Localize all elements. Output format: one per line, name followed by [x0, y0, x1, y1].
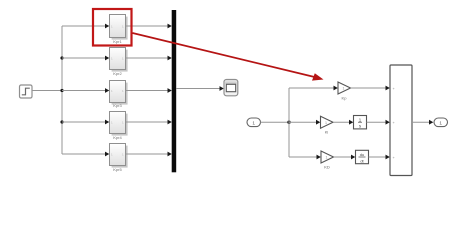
- svg-text:1: 1: [325, 121, 327, 125]
- subsystem block Kpr5: [110, 144, 128, 173]
- subsystem block Kpr3: [110, 81, 128, 109]
- derivative du/dt: [356, 150, 369, 163]
- svg-text:1: 1: [326, 156, 328, 160]
- step source block: [20, 85, 33, 98]
- wire KD to derivative: [334, 155, 356, 160]
- gain Kp: [338, 82, 351, 101]
- wire to block 2: [62, 56, 109, 61]
- outport 1: [434, 118, 448, 127]
- wire derivative to sum: [369, 155, 390, 160]
- gain Ki: [321, 116, 334, 134]
- wire to gain KD: [289, 155, 321, 160]
- wire Ki to integrator: [333, 120, 353, 125]
- wire block3 to mux: [126, 88, 172, 93]
- wire to block 3: [62, 88, 109, 93]
- wire step to branch node: [32, 90, 62, 92]
- svg-text:Ki: Ki: [325, 130, 329, 135]
- junction node pid: [287, 121, 290, 124]
- red annotation arrow: [133, 33, 324, 81]
- svg-text:1: 1: [439, 121, 442, 127]
- wire to gain Kp: [289, 86, 338, 91]
- wire inport to branch: [261, 121, 290, 123]
- integrator 1/s: [354, 116, 367, 129]
- junction node row3: [60, 89, 63, 92]
- wire block1 to mux: [126, 24, 172, 29]
- svg-text:du: du: [360, 152, 364, 157]
- wire block2 to mux: [126, 56, 172, 61]
- gain KD: [321, 151, 334, 170]
- svg-text:Kpr1: Kpr1: [113, 39, 122, 44]
- svg-text:Kpr4: Kpr4: [113, 135, 122, 140]
- subsystem block Kpr2: [110, 48, 128, 77]
- wire mux to scope: [176, 86, 224, 91]
- svg-text:Kpr5: Kpr5: [113, 167, 122, 172]
- vertical branch wire pid: [288, 88, 290, 157]
- red highlight box: [93, 9, 132, 46]
- svg-text:1: 1: [343, 87, 345, 91]
- wire block4 to mux: [126, 120, 172, 125]
- wire sum to outport: [412, 120, 433, 125]
- wire to block 4: [62, 120, 109, 125]
- vertical branch wire: [61, 26, 63, 154]
- junction node row2: [60, 56, 63, 59]
- subsystem block Kpr1: [110, 15, 128, 45]
- mux bar: [172, 10, 177, 172]
- junction node row4: [60, 120, 63, 123]
- inport 1: [247, 118, 261, 127]
- svg-text:KD: KD: [324, 165, 330, 170]
- sum block: [390, 65, 412, 176]
- svg-text:Kpr2: Kpr2: [113, 71, 122, 76]
- svg-text:Kp: Kp: [342, 96, 348, 101]
- wire Kp to sum: [351, 86, 390, 91]
- wire to gain Ki: [289, 120, 320, 125]
- svg-text:1: 1: [252, 121, 255, 127]
- svg-text:Kpr3: Kpr3: [113, 103, 122, 108]
- subsystem block Kpr4: [110, 112, 128, 141]
- scope block: [224, 80, 238, 96]
- wire to block 5: [62, 152, 109, 157]
- wire to block 1: [62, 24, 109, 29]
- wire integrator to sum: [367, 120, 390, 125]
- wire block5 to mux: [126, 152, 172, 157]
